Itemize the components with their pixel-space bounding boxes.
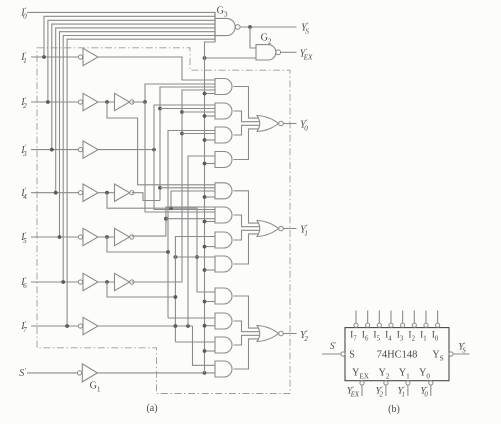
inverter G1 (S' input buffer) [78, 371, 82, 375]
wire and-out 3 [234, 335, 260, 345]
and-gate A4 [215, 152, 232, 168]
wire I6 stub [107, 282, 175, 297]
inverter row I5' (input-bubble) [78, 235, 82, 239]
wire input I2' [31, 101, 78, 103]
wire NOR Y2 output [283, 333, 296, 335]
inverter row I3' (input-bubble) [78, 148, 82, 152]
node junction I2comp [143, 100, 147, 104]
wire I3 to A2 [154, 105, 215, 150]
node junction inverter out I2' [105, 100, 109, 104]
wire I3 out [98, 149, 154, 151]
wire S tap [205, 221, 216, 223]
pin YS bubble [449, 352, 453, 356]
svg-text:I′4: I′4 [20, 187, 27, 201]
wire and-out 1 [234, 296, 259, 328]
or-gate NOR Y1 [257, 221, 279, 237]
and-gate A2 [215, 103, 232, 119]
wire I6comp to A3 [182, 133, 215, 135]
pin Y1 bubble [406, 381, 410, 385]
svg-text:I′3: I′3 [20, 144, 27, 158]
svg-text:I′7: I′7 [20, 320, 27, 334]
wire S tap [205, 93, 216, 95]
svg-text:I′2: I′2 [20, 96, 27, 110]
wire I6comp route [132, 90, 215, 282]
wire bus I4' riser to G3 [56, 28, 215, 193]
wire bus I2' riser to G3 [48, 20, 215, 102]
pin input I0 stub [437, 311, 439, 324]
and-gate B2 [215, 207, 232, 223]
and-gate C2 [215, 313, 232, 329]
or-gate NOR Y0 [257, 116, 279, 132]
and-gate B1 [215, 183, 232, 199]
pin Y0 stub [430, 385, 432, 396]
node junction I6comp-A3 [180, 132, 184, 136]
svg-text:I′0: I′0 [20, 6, 27, 20]
wire G2 output YEX' [281, 51, 297, 53]
node junction S tap [203, 349, 207, 353]
svg-text:74HC148: 74HC148 [377, 350, 418, 361]
inverter row I2' second (output-bubble) [115, 93, 130, 110]
node junction S tap [203, 114, 207, 118]
and-gate C1 [215, 288, 232, 304]
pin input I4 bubble [389, 323, 393, 327]
pin S bubble [341, 352, 345, 356]
wire and-out 4 [234, 339, 259, 369]
or-gate NOR Y2 [257, 326, 279, 342]
wire S tap [205, 115, 216, 117]
wire I3 to B2 [154, 150, 215, 210]
wire input S' [27, 372, 78, 374]
node junction S tap [203, 195, 207, 199]
wire S tap [205, 163, 216, 165]
svg-text:Y′2: Y′2 [376, 386, 384, 399]
wire input I5' [31, 236, 78, 238]
svg-text:Y′0: Y′0 [421, 386, 429, 399]
wire inter-inverter row I2' [98, 101, 115, 103]
node junction inverter out I5' [105, 235, 109, 239]
wire and-out 2 [234, 321, 260, 332]
node junction I1' tap [42, 55, 46, 59]
wire I5comp to B2 second [166, 218, 215, 220]
node junction S tap [203, 162, 207, 166]
pin input I7 bubble [354, 323, 358, 327]
wire S tap [205, 139, 216, 141]
pin Y2 bubble [384, 381, 388, 385]
node junction S to G2 [203, 56, 207, 60]
wire and-out 3 [234, 125, 260, 135]
wire S tap [205, 269, 216, 271]
node junction I3' tap [50, 148, 54, 152]
wire S tap [205, 196, 216, 198]
wire S' input (b) [322, 353, 341, 355]
svg-text:Y′1: Y′1 [300, 223, 308, 237]
wire input I4' [31, 192, 78, 194]
wire I7 to C4 [193, 326, 216, 365]
wire I4comp jog [132, 193, 160, 201]
node junction I6 source [174, 295, 178, 299]
node junction I2' tap [46, 100, 50, 104]
node junction I5 source [166, 250, 170, 254]
inverter row I7' (input-bubble) [78, 324, 82, 328]
wire I5comp route [132, 207, 215, 236]
wire I4comp to A2 [160, 108, 215, 110]
gate G3 input bar [214, 12, 216, 42]
node junction I4' tap [54, 191, 58, 195]
pin input I6 bubble [366, 323, 370, 327]
wire I4 stub [107, 193, 215, 292]
gate G2 NAND [256, 45, 276, 60]
inverter row I2' (input-bubble) [78, 100, 82, 104]
pin Y1 stub [407, 385, 409, 396]
and-gate C4 [215, 361, 232, 377]
wire G2 top input [250, 27, 256, 48]
node junction S tap [203, 138, 207, 142]
dash-dot chip boundary (a) [37, 48, 290, 394]
and-gate C3 [215, 337, 232, 353]
wire S tap [205, 246, 216, 248]
wire inter-inverter row I4' [98, 192, 115, 194]
pin input I5 bubble [377, 323, 381, 327]
pin input I6 stub [367, 311, 369, 324]
inverter row I4' second (output-bubble) [115, 184, 130, 201]
gate G3 NAND body [215, 18, 235, 35]
node junction S tap [203, 300, 207, 304]
wire I5 stub [107, 237, 168, 252]
pin input I3 bubble [401, 323, 405, 327]
pin input I1 bubble [424, 323, 428, 327]
node junction S tap [203, 220, 207, 224]
node junction I5comp-B2 [164, 217, 168, 221]
svg-text:Y′S: Y′S [301, 21, 309, 35]
wire G2 bottom input from S line [205, 57, 257, 59]
wire S tap [205, 301, 216, 303]
svg-text:I′6: I′6 [20, 276, 27, 290]
node junction I7-A4riser [186, 324, 190, 328]
wire B4 input line [175, 256, 215, 258]
svg-text:Y′1: Y′1 [398, 386, 405, 399]
node junction S tap [203, 324, 207, 328]
node junction I6' tap [61, 280, 65, 284]
wire bus I5' riser to G3 [60, 32, 216, 237]
inverter row I1' (input-bubble) [78, 55, 82, 59]
inverter row I6' (input-bubble) [78, 280, 82, 284]
IC 74HC148 package box [345, 328, 449, 381]
svg-text:(a): (a) [146, 403, 157, 414]
svg-text:I′1: I′1 [20, 51, 26, 65]
wire I4comp riser [160, 87, 215, 201]
pin input I1 stub [425, 311, 427, 324]
wire I2comp riser [132, 84, 215, 102]
wire I6comp to A2 [182, 111, 215, 113]
node junction riser-B1 [169, 206, 173, 210]
wire inter-inverter row I5' [98, 236, 115, 238]
wire bus I7' riser to G3 [67, 39, 215, 326]
wire I2 stub [107, 102, 215, 185]
node junction I4comp-A2 [158, 107, 162, 111]
node junction inverter out I6' [105, 280, 109, 284]
wire NOR Y0 output [283, 123, 296, 125]
node junction I4comp-B1 [158, 186, 162, 190]
wire inter-inverter row I6' [98, 281, 115, 283]
and-gate B4 [215, 256, 232, 272]
pin input I7 stub [355, 311, 357, 324]
wire I7 riser to A4 [188, 156, 215, 326]
wire I4comp to B1 [160, 187, 215, 189]
svg-text:Y′0: Y′0 [300, 118, 308, 132]
inverter row I5' second (output-bubble) [115, 228, 130, 245]
node junction inverter out I4' [105, 191, 109, 195]
node junction S line bottom [203, 371, 207, 375]
pin input I0 bubble [436, 323, 440, 327]
wire input I0' [27, 11, 215, 13]
wire input I1' [31, 56, 78, 58]
wire YS' output (b) [453, 353, 469, 355]
pin input I2 stub [413, 311, 415, 324]
node junction I7-B4riser [174, 324, 178, 328]
wire G3 output YS' [240, 26, 297, 28]
wire I1 to A1 [98, 57, 215, 80]
wire S distribution vertical [205, 42, 216, 373]
node junction S tap [203, 245, 207, 249]
node junction I4-B4 [195, 255, 199, 259]
node junction I6comp-A2 [180, 110, 184, 114]
wire bus I6' riser to G3 [63, 36, 215, 283]
node junction YS to G2 [248, 25, 252, 29]
wire bus I3' riser to G3 [52, 24, 215, 150]
wire NOR Y1 output [283, 228, 296, 230]
wire G1 output to C4/S line [97, 372, 215, 374]
svg-text:(b): (b) [388, 404, 400, 415]
wire I2comp to B2 [145, 102, 215, 212]
pin Y0 bubble [429, 381, 433, 385]
wire and-out 2 [234, 111, 260, 122]
node junction I6-B4 [174, 255, 178, 259]
pin YEX stub [361, 385, 363, 396]
node junction I5' tap [58, 235, 62, 239]
wire I6 to C3 [175, 341, 215, 343]
and-gate B3 [215, 232, 232, 248]
pin input I3 stub [402, 311, 404, 324]
wire S tap [205, 350, 216, 352]
svg-text:S: S [349, 350, 355, 361]
wire and-out 4 [234, 129, 259, 160]
pin input I2 bubble [412, 323, 416, 327]
and-gate A1 [215, 79, 232, 95]
wire I5 riser [168, 131, 215, 319]
wire input I7' [31, 325, 78, 327]
wire riser B1 third input [171, 191, 215, 208]
inverter row I4' (input-bubble) [78, 191, 82, 195]
node junction S tap [203, 268, 207, 272]
node junction I3 [152, 148, 156, 152]
wire I5 to C2 [168, 317, 215, 319]
wire and-out 1 [234, 87, 259, 119]
node junction I7' tap [65, 324, 69, 328]
svg-text:Y′S: Y′S [458, 342, 466, 355]
wire I7 out [98, 325, 193, 327]
wire input I6' [31, 281, 78, 283]
wire S tap [205, 325, 216, 327]
svg-text:I′5: I′5 [20, 231, 27, 245]
wire and-out 3 [234, 230, 260, 240]
wire and-out 1 [234, 191, 259, 223]
wire and-out 2 [234, 215, 260, 227]
node junction S tap [203, 92, 207, 96]
pin Y2 stub [385, 385, 387, 396]
wire input I3' [31, 149, 78, 151]
pin input I4 stub [390, 311, 392, 324]
svg-text:Y′2: Y′2 [300, 329, 308, 343]
and-gate A3 [215, 127, 232, 143]
wire and-out 4 [234, 234, 259, 264]
pin YEX bubble [360, 381, 364, 385]
pin input I5 stub [378, 311, 380, 324]
wire bus I1' riser to G3 [44, 16, 215, 57]
inverter row I6' second (output-bubble) [115, 273, 130, 290]
wire I6 riser [175, 237, 215, 343]
